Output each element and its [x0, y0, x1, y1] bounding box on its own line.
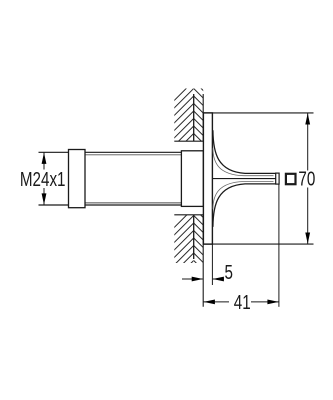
escutcheon flange plate [203, 113, 212, 244]
wall plaster strip hatch upper block (\ diagonals) [194, 81, 205, 160]
valve body outer top line (M24 thread OD, also dim extension) [39, 151, 182, 153]
flange right face extension line down [211, 244, 213, 285]
spout tip ring [276, 173, 279, 184]
trumpet outer top curve [213, 130, 276, 173]
dim 41 line [203, 301, 279, 303]
wall hole bottom cap [174, 214, 203, 216]
dim extension line: flange square bottom [203, 243, 313, 245]
svg-text:41: 41 [234, 291, 251, 314]
label M24x1 mask [19, 170, 67, 189]
arrow left (41) [204, 300, 215, 305]
arrow right (41) [267, 300, 278, 305]
valve body inner top line [85, 154, 181, 156]
wall right face line + extension line for dims [202, 94, 204, 307]
wall left face line [193, 94, 195, 259]
M24x1 dim line vertical [43, 152, 45, 205]
dim extension line: flange square top [203, 112, 313, 114]
label 41 mask [229, 293, 251, 311]
tip extension line down [278, 184, 280, 307]
collar (hex nut section) [69, 150, 86, 208]
svg-text:70: 70 [298, 168, 315, 191]
trumpet inner top curve (thin) [213, 148, 274, 175]
dim line square 70 (vertical right) [307, 113, 309, 244]
label square70 mask [283, 171, 317, 188]
trumpet outer bottom curve [213, 184, 276, 227]
arrow down (70 bottom) [305, 233, 310, 244]
arrow up (70 top) [305, 113, 310, 124]
step section at wall [181, 151, 203, 207]
arrow up (M24 top) [42, 153, 47, 164]
dim 5: right outside arrow [213, 278, 224, 280]
wall masonry hatch lower block (/ diagonals) [170, 208, 194, 300]
wall plaster strip hatch lower block (\ diagonals) [194, 208, 205, 272]
dim 5: left outside arrow [182, 278, 203, 280]
square symbol of label [286, 174, 296, 184]
arrow down (M24 bottom) [42, 193, 47, 204]
wall masonry hatch upper block (/ diagonals) [170, 81, 194, 180]
wall hole top cap [174, 140, 203, 142]
valve body inner bottom line [85, 202, 181, 204]
valve body outer bottom line [39, 204, 182, 206]
trumpet center line [213, 178, 279, 180]
trumpet inner bottom curve (thin) [213, 182, 274, 209]
svg-text:5: 5 [225, 261, 234, 284]
svg-text:M24x1: M24x1 [20, 168, 66, 191]
